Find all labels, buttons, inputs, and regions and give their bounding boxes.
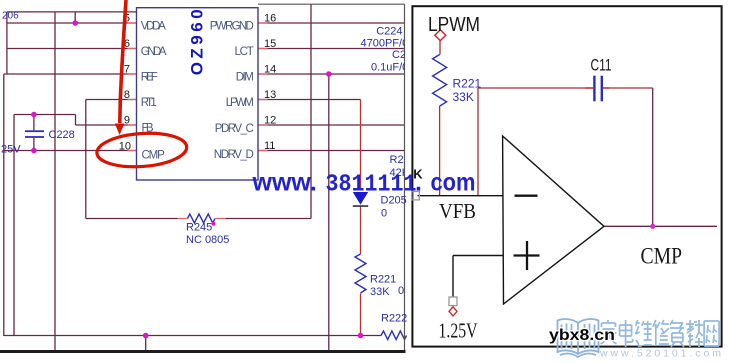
svg-text:9: 9: [124, 115, 130, 127]
svg-text:16: 16: [264, 13, 276, 25]
svg-text:1.25V: 1.25V: [439, 319, 478, 343]
svg-text:33K: 33K: [370, 286, 390, 298]
svg-text:NDRV_D: NDRV_D: [214, 149, 254, 161]
svg-text:RT1: RT1: [141, 97, 157, 109]
svg-text:www.: www.: [252, 169, 317, 197]
svg-text:LPWM: LPWM: [428, 13, 480, 36]
svg-text:C11: C11: [591, 57, 612, 75]
svg-text:C22: C22: [392, 49, 412, 61]
svg-text:CMP: CMP: [641, 244, 683, 269]
svg-text:VDDA: VDDA: [141, 21, 166, 33]
svg-text:com: com: [431, 169, 476, 197]
svg-text:PDRV_C: PDRV_C: [215, 123, 254, 135]
svg-text:0.1uF/06: 0.1uF/06: [371, 62, 414, 74]
svg-text:14: 14: [264, 64, 276, 76]
svg-text:R221: R221: [453, 77, 482, 91]
svg-text:3811111: 3811111: [326, 172, 417, 199]
svg-text:REF: REF: [141, 72, 158, 84]
svg-text:LPWM: LPWM: [226, 97, 254, 109]
svg-text:7: 7: [124, 64, 130, 76]
svg-text:R221: R221: [370, 274, 396, 286]
svg-text:13: 13: [264, 89, 276, 101]
svg-text:10: 10: [119, 141, 131, 153]
svg-text:C228: C228: [49, 129, 75, 141]
svg-text:PWRGND: PWRGND: [210, 21, 254, 33]
svg-text:ybx8.cn: ybx8.cn: [549, 327, 615, 344]
svg-text:www.520101.com: www.520101.com: [599, 348, 721, 360]
svg-text:25V: 25V: [1, 144, 21, 156]
svg-text:VFB: VFB: [439, 199, 476, 223]
svg-text:15: 15: [264, 38, 276, 50]
svg-text:R222: R222: [381, 313, 407, 325]
svg-text:12: 12: [264, 115, 276, 127]
svg-text:11: 11: [264, 140, 275, 152]
svg-text:NC 0805: NC 0805: [186, 234, 229, 246]
svg-text:33K: 33K: [453, 90, 474, 104]
svg-text:.: .: [415, 169, 422, 197]
svg-text:DIM: DIM: [236, 72, 254, 84]
svg-text:0: 0: [398, 285, 404, 297]
svg-text:R245: R245: [186, 222, 212, 234]
svg-text:206: 206: [2, 11, 19, 22]
svg-text:LCT: LCT: [235, 46, 254, 58]
svg-text:CMP: CMP: [142, 150, 166, 162]
svg-text:0: 0: [381, 208, 387, 220]
svg-text:C224: C224: [376, 26, 402, 38]
svg-text:R21: R21: [390, 154, 410, 166]
svg-text:8: 8: [124, 89, 130, 101]
svg-text:OZ960: OZ960: [187, 6, 206, 75]
svg-text:GNDA: GNDA: [141, 46, 167, 58]
svg-text:4700PF/06: 4700PF/06: [361, 38, 415, 50]
